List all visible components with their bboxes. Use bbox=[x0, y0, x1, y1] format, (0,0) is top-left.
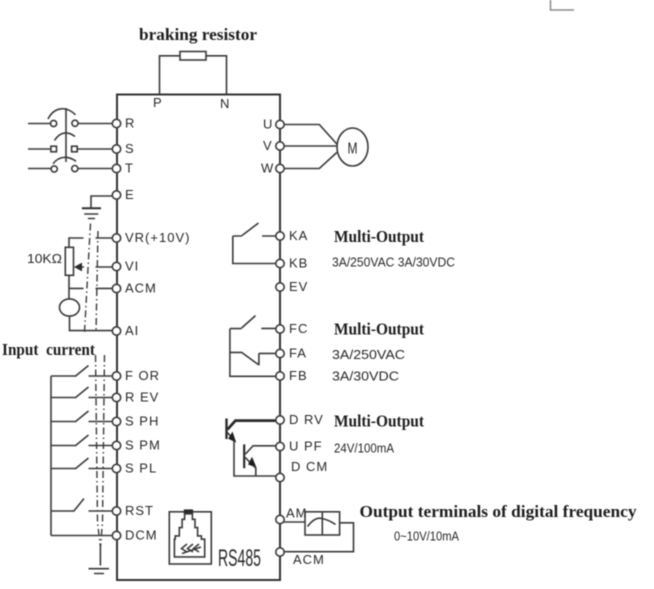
svg-text:VI: VI bbox=[125, 259, 139, 274]
current source AI bbox=[60, 299, 80, 316]
motor M bbox=[337, 128, 368, 166]
wire T contact to terminal bbox=[78, 168, 112, 170]
breaker contact R right bbox=[72, 120, 78, 126]
relay changeover FA bbox=[230, 352, 276, 365]
switch REV bbox=[51, 387, 89, 398]
svg-text:V: V bbox=[263, 138, 273, 153]
svg-text:FB: FB bbox=[289, 368, 308, 383]
svg-text:S PL: S PL bbox=[125, 461, 157, 476]
wire W to motor bbox=[284, 153, 337, 169]
svg-text:Multi-Output: Multi-Output bbox=[334, 412, 424, 431]
switch RST bbox=[51, 499, 84, 512]
resistor braking bbox=[180, 52, 206, 61]
svg-text:T: T bbox=[125, 161, 134, 176]
breaker contact T right bbox=[72, 166, 78, 172]
shield dash-dot lower left bbox=[96, 355, 101, 546]
terminal DCM left bbox=[112, 528, 157, 543]
wire VR terminal to potentiometer top bbox=[69, 238, 112, 247]
RS485 connector J1 bbox=[169, 509, 211, 564]
terminal W bbox=[261, 161, 284, 176]
wire Q1 emitter to DCM bbox=[234, 441, 277, 476]
terminal VI bbox=[112, 259, 139, 274]
meter frequency bbox=[305, 512, 340, 535]
terminal RST bbox=[112, 503, 154, 518]
svg-text:F OR: F OR bbox=[125, 368, 160, 383]
wire meter to ACM loop bbox=[283, 523, 354, 552]
svg-text:D CM: D CM bbox=[291, 459, 328, 474]
svg-text:FA: FA bbox=[289, 346, 307, 361]
svg-text:S: S bbox=[125, 141, 135, 156]
wire KA common to KB bbox=[233, 236, 276, 264]
svg-text:3A/30VDC: 3A/30VDC bbox=[332, 369, 399, 384]
transistor Q2 collector bbox=[246, 446, 279, 454]
breaker arc T bbox=[53, 157, 76, 163]
svg-text:Output terminals of digital fr: Output terminals of digital frequency bbox=[360, 502, 638, 521]
breaker arc R bbox=[48, 109, 76, 119]
svg-text:AI: AI bbox=[125, 323, 139, 338]
svg-text:0~10V/10mA: 0~10V/10mA bbox=[394, 529, 459, 544]
terminal SPH bbox=[112, 414, 159, 429]
wire braking resistor right to N bbox=[206, 56, 227, 95]
switch SPL bbox=[51, 458, 89, 469]
wire input lead S bbox=[28, 148, 50, 150]
transistor Q1 emitter bbox=[228, 432, 237, 443]
wire SPL to terminal bbox=[89, 468, 113, 470]
terminal ACM left bbox=[112, 281, 157, 296]
potentiometer wiper arrow bbox=[74, 263, 82, 272]
svg-text:ACM: ACM bbox=[125, 281, 157, 296]
transistor Q2 emitter bbox=[246, 457, 257, 468]
wire Q2 emitter to bottom bbox=[254, 466, 256, 476]
digital input bus bbox=[50, 376, 52, 536]
braking resistor label bbox=[139, 25, 257, 44]
svg-text:S PM: S PM bbox=[125, 438, 161, 453]
svg-text:EV: EV bbox=[289, 279, 308, 294]
ground shield bbox=[89, 569, 110, 574]
transistor Q1 bar bbox=[225, 419, 227, 440]
terminal U bbox=[263, 117, 284, 132]
inverter main box bbox=[117, 95, 280, 581]
svg-text:Multi-Output: Multi-Output bbox=[334, 227, 424, 246]
ground E bbox=[82, 208, 101, 218]
svg-text:RS485: RS485 bbox=[218, 545, 261, 572]
svg-text:R EV: R EV bbox=[125, 390, 159, 405]
svg-text:D RV: D RV bbox=[289, 412, 324, 427]
svg-text:ACM: ACM bbox=[293, 552, 325, 567]
breaker arc S bbox=[55, 133, 76, 141]
wire input lead T bbox=[28, 168, 51, 170]
terminal EV bbox=[276, 279, 309, 294]
terminal R bbox=[112, 116, 135, 131]
terminal REV bbox=[112, 390, 159, 405]
wire REV to terminal bbox=[89, 397, 113, 399]
wire SPM to terminal bbox=[89, 445, 113, 447]
svg-text:10KΩ: 10KΩ bbox=[27, 251, 62, 266]
terminal S bbox=[112, 141, 134, 156]
svg-text:AM: AM bbox=[286, 506, 308, 521]
svg-text:U: U bbox=[263, 117, 273, 132]
wire potentiometer bottom bbox=[68, 275, 70, 298]
potentiometer RP 10K bbox=[65, 247, 73, 275]
svg-text:braking resistor: braking resistor bbox=[139, 25, 257, 44]
terminal FB bbox=[276, 368, 308, 383]
svg-text:DCM: DCM bbox=[125, 528, 158, 543]
transistor Q2 bar bbox=[243, 444, 245, 468]
svg-text:3A/250VAC: 3A/250VAC bbox=[332, 347, 405, 362]
svg-text:3A/250VAC 3A/30VDC: 3A/250VAC 3A/30VDC bbox=[332, 255, 455, 270]
svg-text:Multi-Output: Multi-Output bbox=[334, 320, 424, 339]
wire input lead R bbox=[28, 123, 51, 125]
switch SPH bbox=[51, 411, 89, 422]
wire shield to ground bbox=[99, 546, 101, 566]
svg-text:KA: KA bbox=[289, 228, 308, 243]
terminal SPL bbox=[112, 461, 157, 476]
svg-text:VR(+10V): VR(+10V) bbox=[125, 230, 190, 245]
terminal DRV bbox=[276, 412, 324, 427]
corner mark top right bbox=[551, 0, 575, 10]
svg-text:U PF: U PF bbox=[289, 439, 323, 454]
shield dash-dot upper left bbox=[85, 224, 91, 333]
terminal KA bbox=[276, 228, 309, 243]
breaker linkage bar bbox=[65, 108, 67, 162]
svg-text:E: E bbox=[125, 187, 135, 202]
svg-text:KB: KB bbox=[289, 256, 308, 271]
terminal V bbox=[263, 138, 284, 153]
wire DCM row bbox=[51, 535, 112, 537]
svg-text:M: M bbox=[348, 141, 358, 158]
wire RST to terminal bbox=[89, 510, 113, 512]
terminal FA bbox=[276, 346, 307, 361]
terminal DCM right bbox=[276, 459, 328, 482]
wire current source to AI terminal bbox=[70, 316, 113, 331]
breaker contact R left bbox=[51, 120, 57, 126]
wire wiper to VI terminal bbox=[82, 266, 112, 268]
svg-text:S PH: S PH bbox=[125, 414, 159, 429]
switch FOR bbox=[51, 366, 89, 377]
terminal T bbox=[112, 161, 134, 176]
shield dash-dot lower right bbox=[101, 355, 105, 546]
relay contact FC bbox=[230, 316, 276, 329]
wire FOR to terminal bbox=[89, 375, 113, 377]
svg-text:RST: RST bbox=[125, 503, 154, 518]
svg-text:24V/100mA: 24V/100mA bbox=[334, 441, 394, 456]
svg-text:R: R bbox=[125, 116, 135, 131]
breaker contact S left bbox=[51, 146, 57, 152]
wire R contact to terminal bbox=[78, 123, 112, 125]
wire AM to meter bbox=[283, 521, 305, 523]
svg-text:Input current: Input current bbox=[2, 340, 95, 359]
terminal VR(+10V) bbox=[112, 230, 190, 245]
wire U to motor bbox=[284, 125, 337, 145]
wire SPH to terminal bbox=[89, 421, 113, 423]
wire S contact to terminal bbox=[77, 148, 112, 150]
wire E to ground bbox=[91, 196, 112, 209]
terminal KB bbox=[276, 256, 309, 271]
terminal E bbox=[112, 187, 134, 202]
wire V to motor bbox=[284, 145, 337, 147]
shield dash-dot upper right bbox=[96, 231, 98, 332]
breaker contact S right bbox=[72, 146, 78, 152]
terminal AM bbox=[276, 506, 308, 524]
terminal UPF bbox=[276, 439, 323, 454]
breaker contact T left bbox=[51, 166, 57, 172]
svg-text:W: W bbox=[261, 161, 274, 176]
terminal SPM bbox=[112, 438, 160, 453]
wire FC common to FB bbox=[230, 329, 277, 377]
wire braking resistor left to P bbox=[160, 56, 181, 95]
svg-text:FC: FC bbox=[289, 321, 308, 336]
switch SPM bbox=[51, 435, 89, 446]
terminal ACM right bbox=[276, 548, 325, 567]
terminal FC bbox=[276, 321, 309, 336]
terminal AI bbox=[112, 323, 139, 338]
svg-text:P: P bbox=[153, 95, 163, 110]
wire ACM branch bbox=[69, 287, 112, 289]
terminal FOR bbox=[112, 368, 160, 383]
transistor Q1 collector bbox=[228, 421, 279, 430]
svg-text:N: N bbox=[220, 96, 230, 111]
relay contact KA bbox=[233, 223, 276, 236]
